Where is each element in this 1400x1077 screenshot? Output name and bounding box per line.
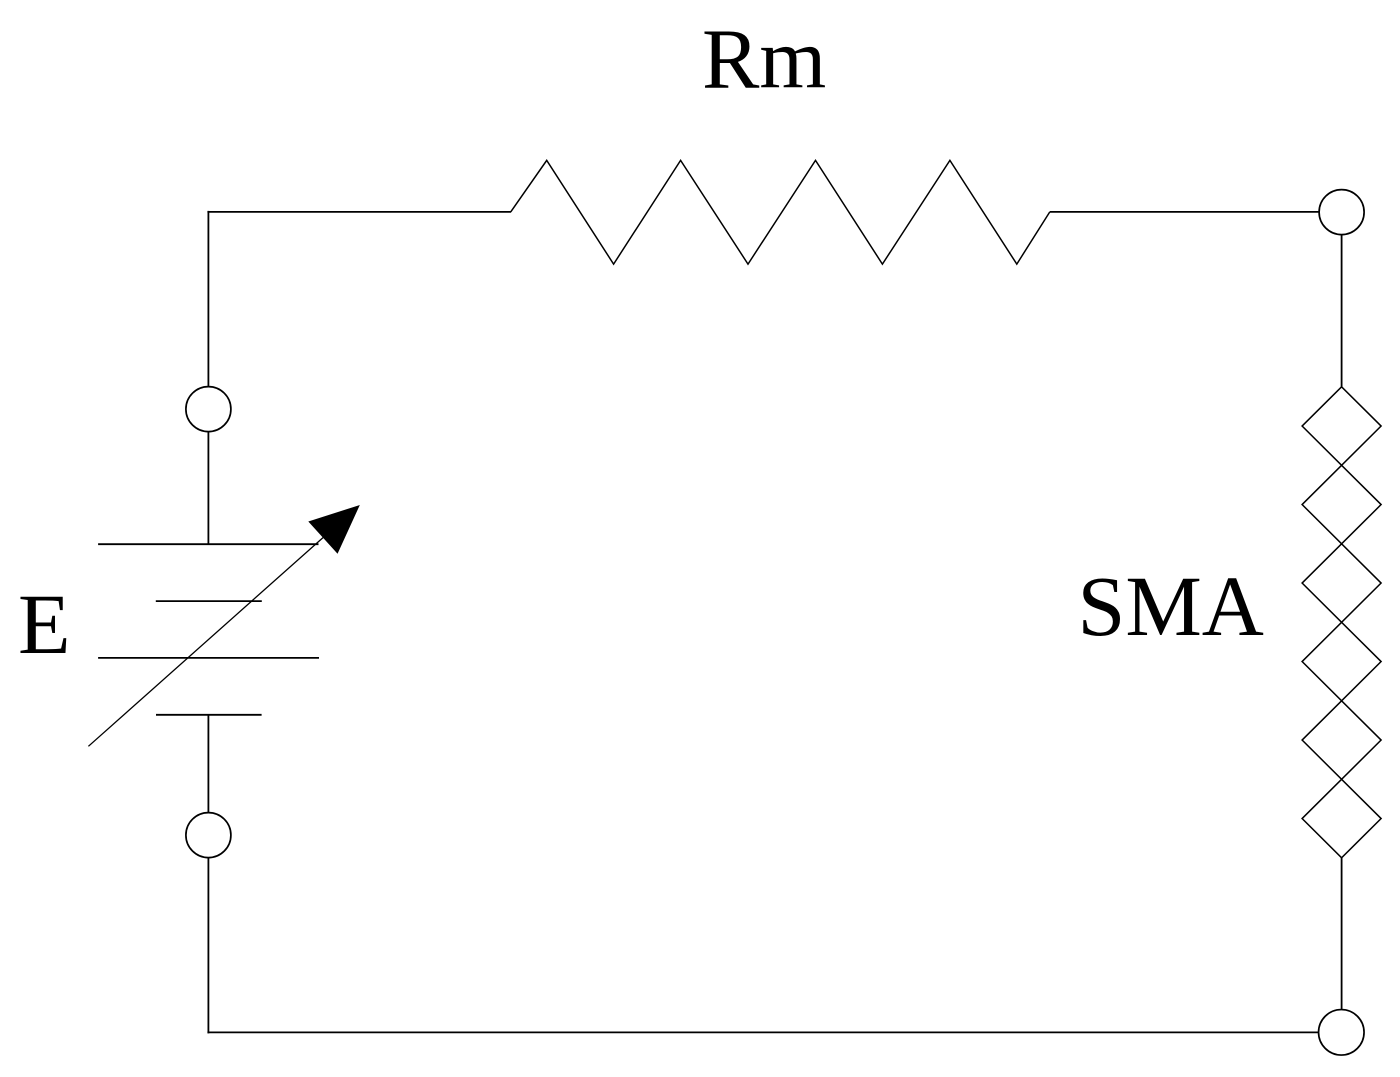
svg-text:SMA: SMA xyxy=(1078,558,1264,654)
wire top horizontal left of resistor xyxy=(207,211,511,213)
wire top horizontal right of resistor xyxy=(1050,211,1319,213)
wire right vertical below SMA xyxy=(1341,858,1343,1010)
terminal circle upper-left xyxy=(186,387,231,432)
battery E plate 2 (short) xyxy=(156,600,262,602)
resistor Rm xyxy=(511,160,1050,264)
wire bottom horizontal xyxy=(207,1031,1318,1033)
battery E plate 4 (short) xyxy=(156,714,262,716)
SMA element (chain of 6 diamonds) xyxy=(1302,387,1381,858)
terminal circle bottom-right xyxy=(1319,1010,1365,1056)
terminal circle lower-left xyxy=(186,813,231,858)
wire left vertical top segment xyxy=(207,211,209,387)
battery E plate 1 (long) xyxy=(98,543,318,545)
svg-text:E: E xyxy=(18,576,71,672)
wire from upper-left terminal to battery top plate xyxy=(207,432,209,545)
battery E plate 3 (long) xyxy=(98,657,319,659)
wire from battery bottom plate to lower-left terminal xyxy=(207,715,209,813)
terminal circle top-right xyxy=(1319,190,1364,235)
wire left vertical bottom segment xyxy=(207,858,209,1034)
variable-source arrowhead xyxy=(309,506,359,553)
variable-source arrow shaft xyxy=(88,537,323,746)
svg-text:Rm: Rm xyxy=(702,11,826,107)
wire right vertical above SMA xyxy=(1341,235,1343,388)
